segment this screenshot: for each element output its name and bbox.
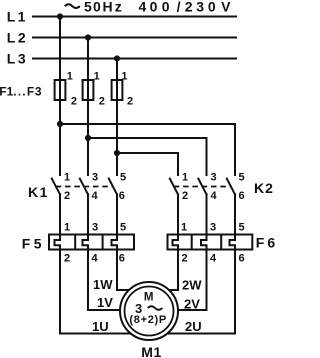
svg-text:6: 6	[239, 253, 245, 265]
svg-text:3: 3	[211, 172, 217, 184]
svg-text:M: M	[144, 292, 154, 304]
svg-text:2V: 2V	[184, 297, 200, 312]
svg-text:5: 5	[239, 172, 245, 184]
svg-text:2: 2	[182, 253, 188, 265]
svg-text:6: 6	[119, 253, 125, 265]
svg-text:3: 3	[92, 222, 98, 234]
svg-text:1: 1	[94, 71, 100, 83]
svg-text:2: 2	[127, 96, 133, 108]
svg-text:1W: 1W	[93, 277, 113, 292]
svg-text:4: 4	[210, 253, 217, 265]
svg-text:1: 1	[182, 172, 188, 184]
svg-text:4: 4	[211, 190, 218, 202]
svg-text:1: 1	[181, 222, 187, 234]
svg-text:50Hz: 50Hz	[84, 0, 122, 15]
svg-text:1: 1	[121, 71, 127, 83]
svg-text:1: 1	[64, 172, 70, 184]
svg-text:2U: 2U	[185, 319, 202, 334]
svg-text:1U: 1U	[92, 319, 109, 334]
svg-text:2: 2	[99, 96, 105, 108]
svg-text:(8+2)P: (8+2)P	[129, 314, 167, 326]
svg-text:K2: K2	[254, 180, 274, 196]
svg-text:5: 5	[239, 222, 245, 234]
svg-text:2: 2	[71, 96, 77, 108]
svg-text:3: 3	[92, 172, 98, 184]
svg-text:4: 4	[92, 190, 99, 202]
svg-text:5: 5	[120, 222, 126, 234]
svg-text:F6: F6	[256, 235, 277, 251]
svg-text:1V: 1V	[97, 295, 113, 310]
svg-text:F1...F3: F1...F3	[0, 85, 42, 99]
svg-text:6: 6	[119, 190, 125, 202]
svg-text:5: 5	[120, 172, 126, 184]
svg-text:1: 1	[64, 222, 70, 234]
svg-text:F5: F5	[22, 236, 45, 252]
svg-text:1: 1	[67, 71, 73, 83]
svg-text:2: 2	[64, 190, 70, 202]
svg-text:3: 3	[210, 222, 216, 234]
svg-text:6: 6	[239, 190, 245, 202]
svg-text:4: 4	[92, 253, 99, 265]
svg-text:2W: 2W	[182, 278, 202, 293]
svg-text:K1: K1	[28, 184, 49, 200]
svg-text:M1: M1	[141, 344, 161, 358]
svg-text:2: 2	[182, 190, 188, 202]
svg-text:2: 2	[64, 253, 70, 265]
